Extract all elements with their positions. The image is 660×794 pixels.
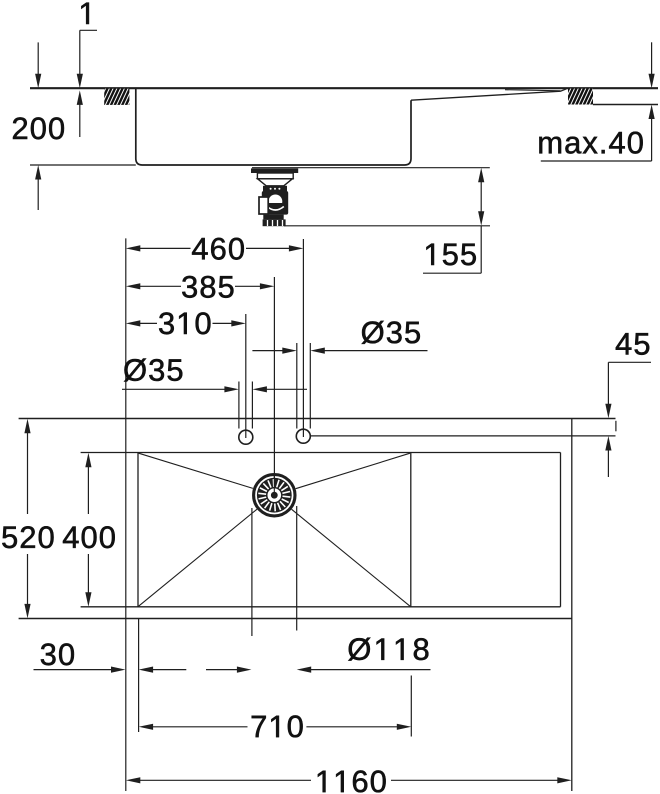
dimension 30 arrows [34,667,187,673]
drain strainer [254,475,295,516]
inner rim bottom line [81,606,561,608]
dimension 45 label [616,333,649,355]
drainboard sloped surface [411,89,567,100]
top view back edge line [19,418,616,420]
left master extension line [125,238,127,791]
diameter 118 left arrow dashes [206,667,251,673]
countertop hatch block right [568,89,593,105]
tap hole center line to 45 dim [310,435,615,437]
right tap hole centerline [302,239,304,437]
sink centerline [273,277,275,495]
sink outer right edge [571,419,573,792]
dimension 1160 label [318,770,386,792]
dimension diameter 35 right arrows [252,348,427,354]
left tap hole centerline [245,314,247,438]
dimension diameter 35 left arrows [122,386,307,392]
bowl diagonal bottom-left [139,509,257,606]
dimension diameter 35 left label [124,359,182,382]
dimension 400 line [85,453,91,607]
inner rim top line [81,452,561,454]
bowl diagonal bottom-right [292,509,410,606]
dimension 520 label [2,526,53,548]
dimension diameter 118 label [348,638,428,661]
left tap hole edge lines [238,382,240,429]
dimension 1 bracket and arrows [77,30,97,137]
sink bowl profile side view [136,89,411,165]
countertop hatch block left [104,89,129,105]
dimension 710 line [139,724,412,730]
dimension 310 line [126,320,246,326]
dimension 1160 line [126,777,572,783]
right tap hole circle [296,429,310,443]
drain tangent extension left [251,508,253,636]
right tap hole edge lines [296,343,298,429]
bowl diagonal top-right [296,453,410,489]
drain outlet bottom extension line [284,225,490,227]
drain tangent extension right [296,506,298,631]
dimension 400 label [63,526,115,548]
countertop underside line right [593,104,658,106]
dimension 460 label [192,238,244,260]
dimension 310 label [159,312,210,334]
dimension 45 bracket and arrows [605,362,651,477]
drainboard rim sliver line [505,90,561,91]
710 extension line left [138,619,140,733]
dimension 30 label [41,643,74,665]
dimension 710 label [252,715,303,737]
710 extension line right [410,676,412,737]
dimension 200 label [13,117,64,139]
dimension 520 line [24,419,30,619]
inner rim right edge [560,453,562,607]
bowl left edge [137,453,139,607]
bowl underside extension line [252,167,490,169]
dimension diameter 118 arrow [297,667,431,673]
countertop top surface line [30,87,658,89]
drain trap fitting [251,168,298,226]
top view front edge line [19,618,572,620]
strainer centerline overlay [273,474,275,496]
dimension 200 arrows [35,42,41,210]
dimension diameter 35 right label [362,321,420,344]
bowl bottom extension line left [30,164,136,166]
dimension 155 label [426,244,475,266]
dimension 1 label [81,3,89,24]
bowl diagonal top-left [139,453,253,488]
dimension 460 line [126,245,304,251]
dimension 385 line [126,283,275,289]
dimension 155 line arrows bracket [423,168,484,274]
dimension max.40 label [539,132,642,154]
dimension 385 label [182,276,233,298]
left tap hole circle [239,430,253,444]
dimension max.40 arrows and bracket [541,42,655,161]
bowl right edge [410,453,412,607]
